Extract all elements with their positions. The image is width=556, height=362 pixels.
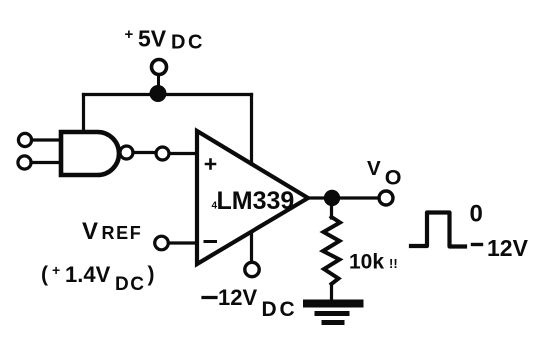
svg-text:(: ( (41, 263, 48, 286)
wire +5V rail horizontal (84, 93, 252, 96)
wire connector to op-amp + input (171, 152, 197, 155)
label +5VDC (125, 26, 205, 54)
gate output bubble / connector circle (120, 146, 133, 159)
svg-text:10k: 10k (349, 251, 384, 274)
svg-text:12V: 12V (487, 235, 529, 261)
waveform pulse symbol (411, 213, 465, 247)
gate input terminal 1 (open circle) (18, 133, 31, 146)
svg-text:REF: REF (102, 223, 143, 243)
svg-text:LM339: LM339 (217, 187, 295, 215)
wire op-amp output to junction (308, 196, 332, 199)
wire gate input 2 (31, 161, 61, 164)
wire from +5V terminal to junction (157, 75, 160, 88)
svg-text:1.4V: 1.4V (65, 262, 111, 287)
wire gate output to connector (133, 151, 156, 154)
terminal -12V supply (open circle) (245, 262, 259, 276)
svg-text:O: O (385, 166, 402, 190)
op-amp U1 LM339 triangle (197, 131, 308, 264)
svg-text:5V: 5V (138, 26, 167, 52)
label (+1.4VDC) (41, 262, 155, 295)
svg-text:DC: DC (262, 298, 298, 321)
terminal VREF (open circle) (155, 236, 169, 250)
op-amp - input marking (205, 240, 216, 243)
svg-text:+: + (125, 26, 134, 43)
terminal Vo (open circle) (379, 191, 393, 205)
label VREF (82, 218, 142, 245)
label -12V (waveform low level) (473, 235, 529, 261)
label Vo (367, 157, 402, 190)
label -12VDC (203, 285, 297, 321)
svg-text:DC: DC (115, 274, 145, 295)
svg-text:DC: DC (171, 32, 205, 54)
AND gate U2 (61, 132, 119, 175)
svg-text:+: + (52, 262, 60, 278)
connector circle at op-amp input (156, 147, 169, 160)
label LM339 (217, 187, 295, 215)
wire resistor to ground (330, 284, 333, 300)
wire output node to Vo terminal (332, 196, 379, 199)
svg-text:V: V (82, 218, 98, 245)
label 0 (waveform high level) (470, 201, 483, 228)
pin number 4 label (212, 201, 218, 212)
terminal +5V supply (open circle) (152, 60, 167, 75)
wire rail down to gate top pin (82, 95, 85, 132)
svg-text:): ) (148, 263, 155, 286)
ground symbol (307, 300, 360, 308)
wire rail down to op-amp V+ pin (250, 95, 253, 165)
label 10k (349, 251, 398, 274)
wire output node to resistor (330, 206, 333, 218)
wire VREF to op-amp - input (169, 241, 198, 244)
gate input terminal 2 (open circle) (18, 156, 31, 169)
junction dot on +5V rail (150, 85, 167, 102)
svg-text:!!: !! (389, 256, 398, 271)
resistor R1 10k zigzag (323, 217, 340, 284)
wire gate input 1 (32, 138, 62, 141)
svg-text:V: V (367, 157, 381, 180)
svg-text:12V: 12V (218, 285, 257, 310)
op-amp V- pin wire (250, 234, 253, 262)
junction dot at output node (324, 190, 340, 206)
op-amp + input marking (206, 160, 215, 169)
svg-text:0: 0 (470, 201, 483, 228)
